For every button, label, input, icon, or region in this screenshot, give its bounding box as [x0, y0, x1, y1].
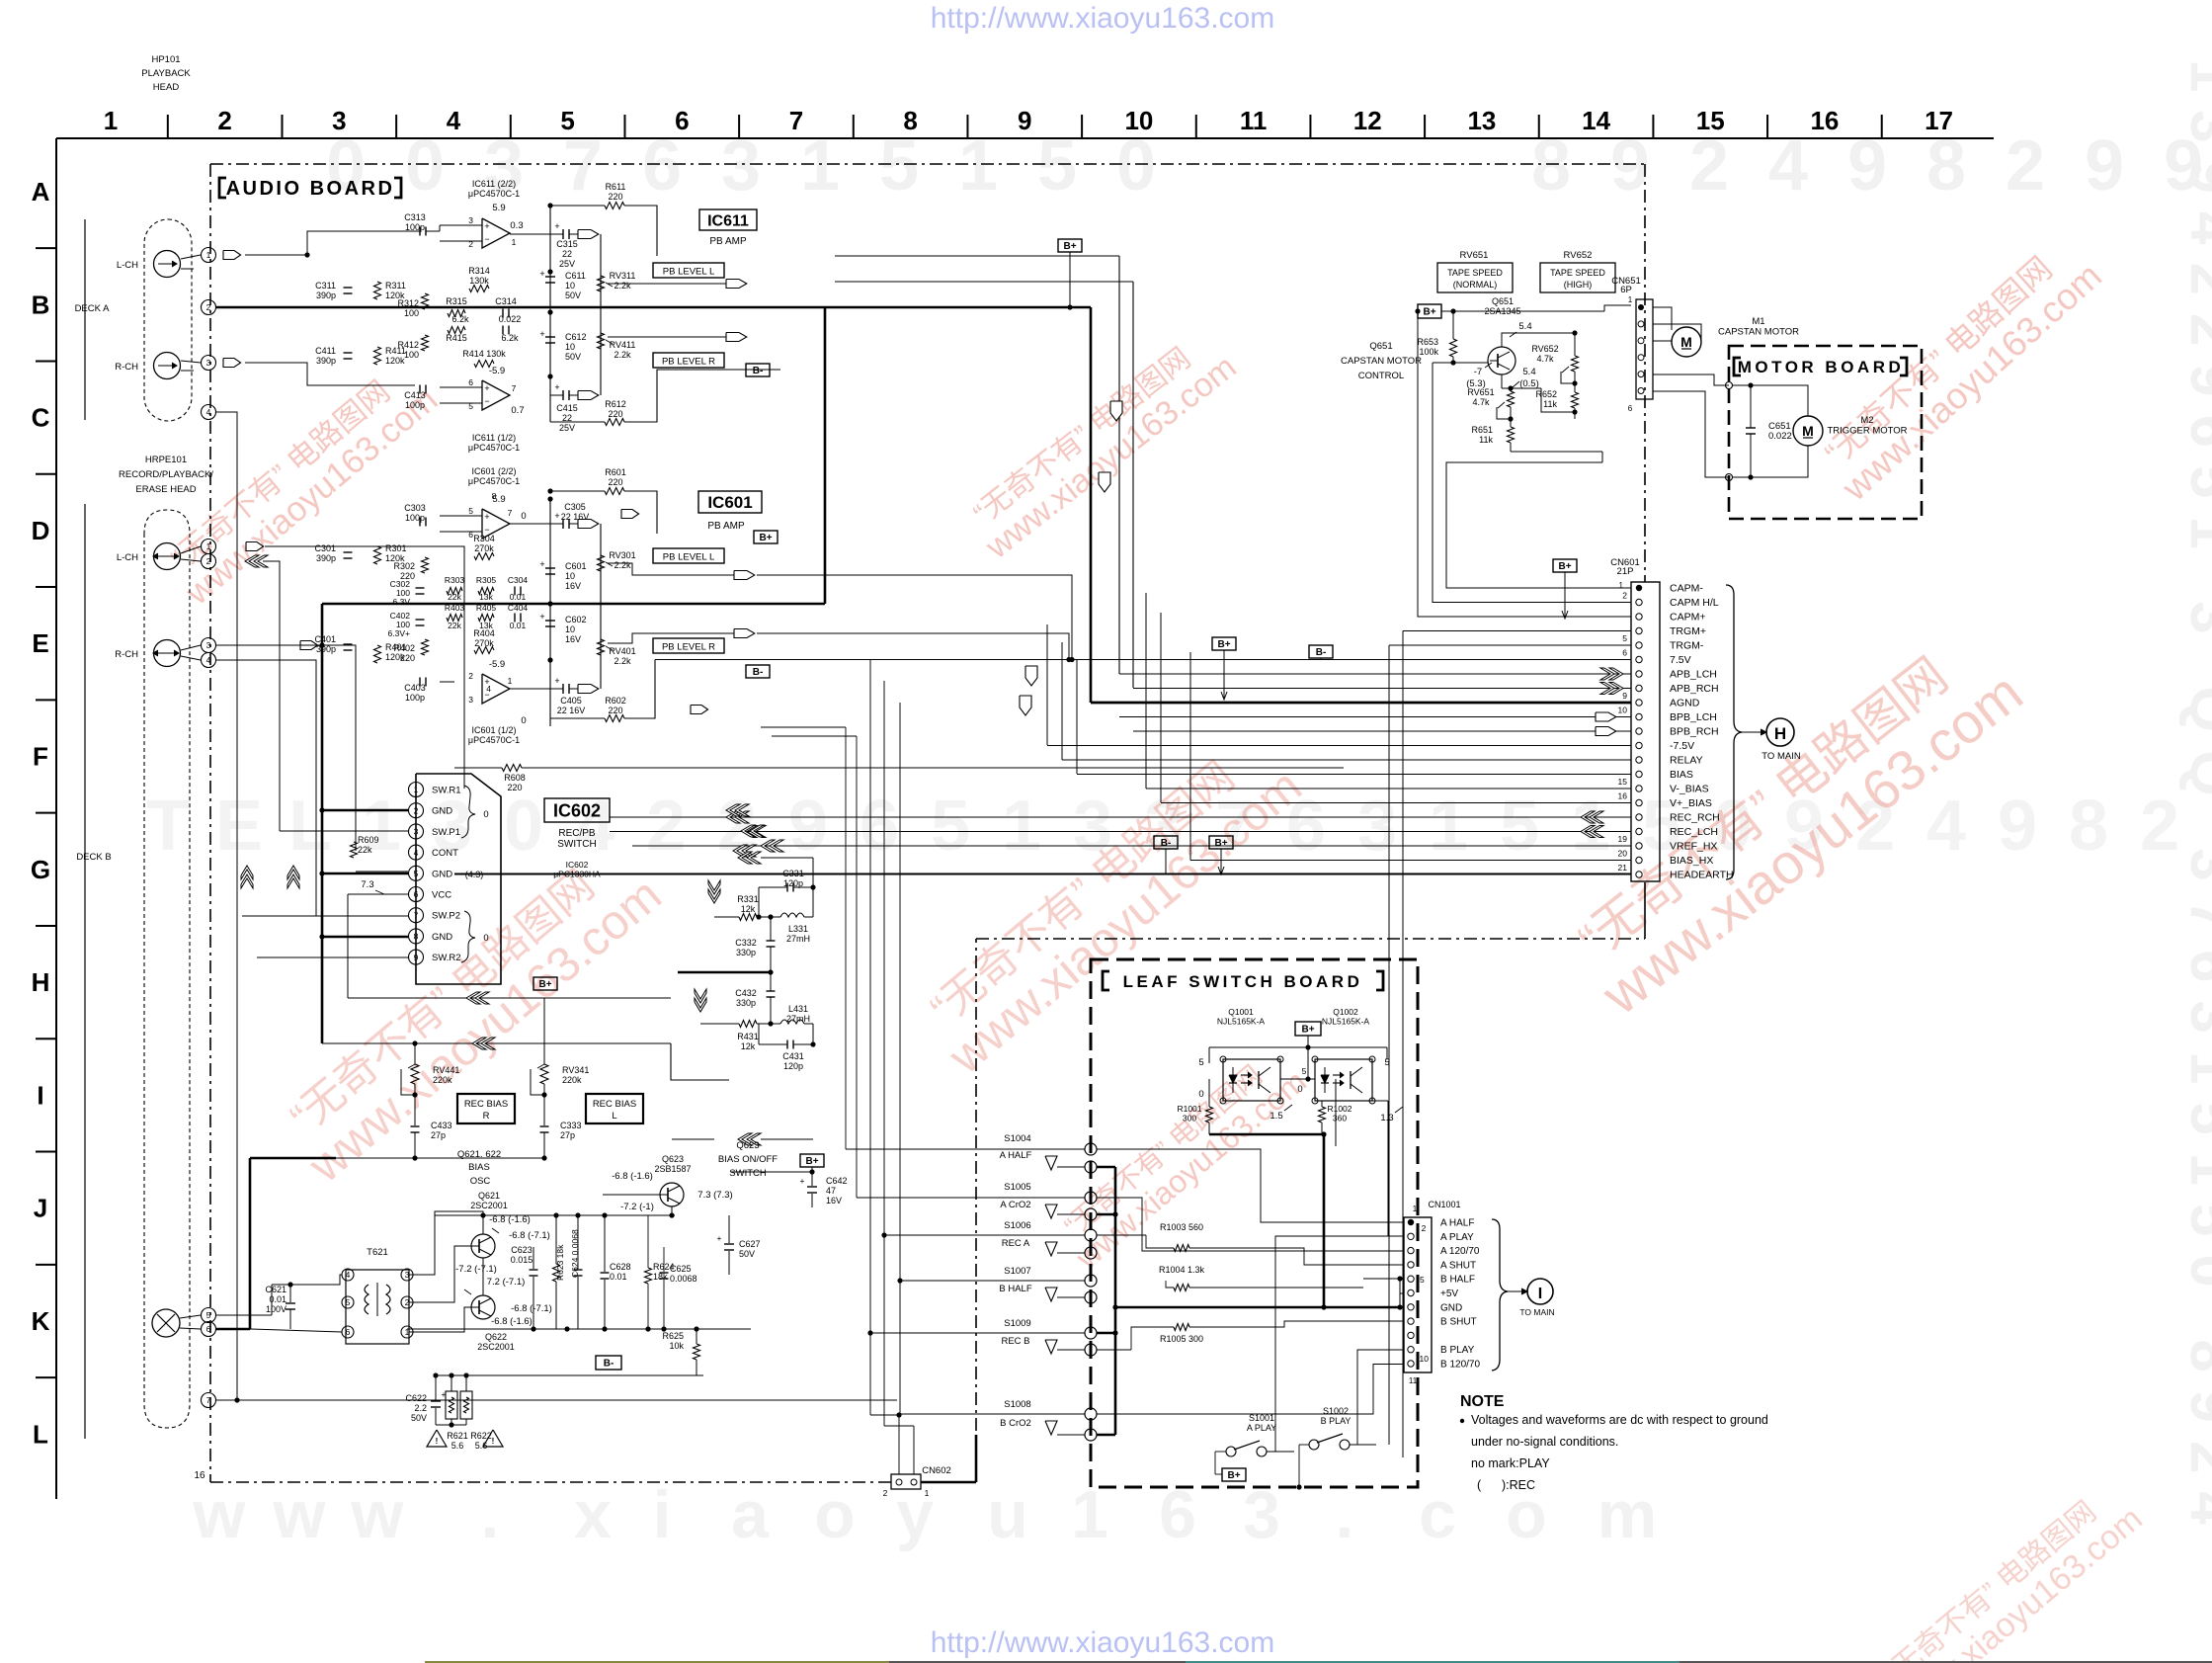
svg-text:S1007: S1007 — [1004, 1266, 1030, 1277]
svg-text:R622: R622 — [470, 1431, 492, 1441]
svg-text:2: 2 — [414, 805, 419, 815]
svg-text:PLAYBACK: PLAYBACK — [141, 68, 191, 79]
wire B+ top box — [1058, 239, 1082, 252]
svg-text:RECORD/PLAYBACK/: RECORD/PLAYBACK/ — [119, 469, 213, 480]
svg-text:11k: 11k — [1543, 399, 1557, 409]
svg-text:T621: T621 — [367, 1247, 388, 1258]
wire opto inputs — [1209, 1078, 1223, 1080]
svg-text:A PLAY: A PLAY — [1440, 1232, 1474, 1243]
transformer T621 outline — [346, 1270, 409, 1344]
svg-text:+: + — [717, 1233, 722, 1243]
svg-text:B+: B+ — [1301, 1025, 1314, 1036]
svg-text:R331: R331 — [737, 894, 759, 904]
wire bias rail top — [435, 1214, 675, 1216]
svg-text:M2: M2 — [1860, 415, 1873, 426]
svg-text:APB_LCH: APB_LCH — [1670, 669, 1717, 681]
wire CN651 to motor board b — [1653, 391, 1729, 477]
deck A pin 3 — [202, 356, 216, 371]
wire S1009 feed — [870, 1332, 1085, 1334]
arrow chev mid a — [738, 852, 752, 864]
svg-text:270k: 270k — [474, 638, 494, 648]
svg-text:7.3 (7.3): 7.3 (7.3) — [697, 1190, 732, 1201]
inductor L431 — [780, 1020, 804, 1024]
svg-text:2.2: 2.2 — [414, 1403, 427, 1413]
svg-text:0.022: 0.022 — [499, 314, 522, 324]
wire head A R — [181, 361, 201, 363]
svg-text:20: 20 — [1618, 849, 1628, 859]
svg-text:i: i — [653, 1477, 672, 1552]
svg-text:Q623: Q623 — [736, 1140, 759, 1151]
wire CN651 to M1 c — [1653, 324, 1701, 341]
svg-text:R302: R302 — [393, 561, 415, 571]
IC602 outline — [416, 774, 501, 984]
svg-text:M: M — [1680, 334, 1692, 350]
svg-text:0: 0 — [521, 715, 526, 726]
motor board title — [1734, 358, 1741, 375]
wire cn602 feed b — [883, 681, 885, 1426]
bus AGND right thick — [1091, 702, 1631, 705]
svg-text:R: R — [483, 1111, 490, 1122]
svg-text:100: 100 — [404, 350, 419, 360]
svg-text:0.0068: 0.0068 — [670, 1274, 697, 1284]
resistor R602 — [605, 715, 624, 722]
connector CN651 — [1636, 299, 1653, 399]
deck A pin 2 — [202, 300, 216, 315]
capacitor C405 — [562, 684, 564, 694]
svg-text:CONT: CONT — [432, 848, 458, 859]
svg-text:-6.8 (-1.6): -6.8 (-1.6) — [612, 1171, 653, 1182]
capacitor C401 R401 — [344, 643, 353, 645]
svg-text:R414 130k: R414 130k — [462, 349, 506, 359]
svg-text:SWITCH: SWITCH — [729, 1168, 767, 1179]
wire pin6 to T621 — [250, 1329, 342, 1332]
IC601 box label — [698, 491, 762, 513]
arrow mid-left a — [621, 510, 639, 519]
svg-text:9: 9 — [1998, 787, 2037, 866]
svg-text:0.01: 0.01 — [610, 1272, 627, 1282]
deck B bracket line — [84, 504, 86, 1439]
svg-text:R415: R415 — [446, 333, 467, 343]
svg-text:2: 2 — [1689, 126, 1729, 206]
wire bundle left vert a — [1046, 624, 1048, 745]
svg-text:130k: 130k — [469, 276, 489, 286]
svg-text:8: 8 — [492, 491, 497, 501]
wire deck B pin1 run — [265, 546, 464, 789]
svg-text:μPC4570C-1: μPC4570C-1 — [468, 189, 520, 199]
wire ic602 pin4 — [356, 871, 408, 873]
svg-text:5: 5 — [1420, 1275, 1425, 1285]
svg-text:0: 0 — [1297, 1084, 1302, 1095]
wire leaf left feeds — [846, 1148, 1085, 1150]
svg-text:100p: 100p — [405, 513, 425, 523]
svg-text:2: 2 — [206, 302, 211, 312]
capacitor C651 — [1746, 427, 1756, 429]
svg-text:1: 1 — [512, 237, 517, 247]
svg-text:HEAD: HEAD — [153, 82, 180, 93]
svg-text:BIAS ON/OFF: BIAS ON/OFF — [718, 1154, 778, 1165]
svg-text:7: 7 — [512, 383, 517, 393]
capacitor C315 — [562, 229, 564, 239]
svg-text:RV652: RV652 — [1531, 344, 1558, 354]
svg-text:4: 4 — [1768, 126, 1808, 206]
svg-text:w: w — [351, 1477, 405, 1552]
svg-text:C625: C625 — [670, 1264, 692, 1274]
svg-text:R402: R402 — [393, 643, 415, 653]
svg-text:4.7k: 4.7k — [1472, 397, 1490, 407]
svg-text:22k: 22k — [358, 845, 372, 855]
left ruler ticks — [36, 247, 56, 249]
svg-text:GND: GND — [432, 869, 452, 879]
warning triangle 1 — [427, 1430, 447, 1447]
svg-text:5.6: 5.6 — [451, 1441, 464, 1451]
arrow C305 out — [578, 520, 599, 529]
arrow row g3 — [733, 845, 747, 857]
B- box g-row — [1154, 836, 1178, 849]
svg-text:C601: C601 — [565, 561, 587, 571]
svg-text:AGND: AGND — [1670, 698, 1700, 709]
resistor R302 — [422, 557, 429, 573]
wire cn602 feed c — [899, 703, 901, 1414]
svg-text:22k: 22k — [448, 621, 461, 630]
svg-text:300: 300 — [1183, 1114, 1196, 1123]
svg-text:(0.5): (0.5) — [1519, 378, 1539, 389]
arrow deck A pin3 — [223, 359, 241, 368]
svg-text:R608: R608 — [504, 773, 526, 783]
svg-text:5: 5 — [206, 1310, 211, 1320]
svg-text:3: 3 — [414, 827, 419, 837]
svg-text:1: 1 — [414, 785, 419, 794]
svg-text:A CrO2: A CrO2 — [1000, 1200, 1030, 1210]
bottom scan artifact line — [425, 1661, 2212, 1663]
wire cn602 thick right — [921, 1481, 976, 1484]
capacitor C611 — [545, 276, 555, 278]
resistor R431 — [739, 1021, 757, 1028]
svg-text:GND: GND — [432, 806, 452, 817]
svg-text:RV311: RV311 — [610, 271, 636, 281]
svg-text:SW.P2: SW.P2 — [432, 911, 460, 922]
svg-text:22k: 22k — [448, 592, 461, 602]
svg-text:120k: 120k — [385, 356, 405, 366]
watermark red stamp mid-bottom — [1049, 1040, 1313, 1277]
wire head B wires — [181, 546, 201, 553]
svg-text:C628: C628 — [610, 1262, 631, 1272]
svg-text:14: 14 — [1582, 106, 1610, 135]
svg-text:+: + — [554, 382, 559, 392]
svg-text:390p: 390p — [316, 553, 336, 563]
wire mid horizontals — [453, 873, 455, 984]
svg-text:2: 2 — [206, 556, 211, 566]
svg-text:4.7k: 4.7k — [1536, 354, 1554, 364]
wire cn601 pin3 feed — [1418, 311, 1631, 617]
svg-text:-6.8 (-1.6): -6.8 (-1.6) — [489, 1214, 531, 1225]
wire bundle right vert a — [1145, 593, 1147, 789]
wire vert x557 — [549, 206, 551, 422]
svg-text:TO MAIN: TO MAIN — [1519, 1307, 1554, 1317]
svg-text:DECK B: DECK B — [76, 852, 111, 863]
svg-text:4: 4 — [206, 655, 211, 665]
audio board border bottom-left — [210, 1481, 891, 1483]
svg-text:S1005: S1005 — [1004, 1182, 1030, 1193]
svg-text:5.4: 5.4 — [1518, 321, 1531, 332]
bus vertical x326 thick — [321, 604, 324, 1043]
wire cn601 pin4 feed — [1403, 630, 1631, 632]
svg-text:B-: B- — [1316, 647, 1327, 658]
B+ box q623 — [800, 1154, 824, 1167]
svg-text:3: 3 — [468, 695, 473, 705]
arrow deck A pin1 — [223, 251, 241, 260]
svg-text:REC B: REC B — [1001, 1336, 1029, 1347]
wire opamp B in — [440, 386, 482, 388]
B+ box s1001 — [1222, 1468, 1246, 1481]
arrow chev y1056 — [472, 1038, 486, 1049]
deck B pin 3 — [202, 638, 216, 653]
head R-CH deck B — [154, 640, 181, 667]
svg-text:1: 1 — [1619, 581, 1624, 590]
svg-text:C623: C623 — [511, 1245, 533, 1255]
svg-text:CAPSTAN MOTOR: CAPSTAN MOTOR — [1341, 356, 1422, 367]
svg-text:C331: C331 — [782, 869, 804, 878]
node H to main — [1742, 731, 1764, 733]
svg-text:27mH: 27mH — [786, 934, 810, 944]
wire long headearth — [454, 873, 1631, 874]
wire motor board bottom — [1751, 434, 1808, 477]
svg-text:6: 6 — [642, 126, 682, 206]
svg-text:under no-signal conditions.: under no-signal conditions. — [1471, 1435, 1618, 1449]
svg-text:220: 220 — [507, 783, 522, 792]
svg-text:PB LEVEL L: PB LEVEL L — [663, 267, 714, 278]
svg-text:B+: B+ — [1423, 307, 1435, 318]
svg-text:2.2k: 2.2k — [614, 350, 631, 360]
svg-text:C: C — [32, 403, 50, 433]
svg-text:1: 1 — [1429, 787, 1468, 866]
IC602 label box — [544, 798, 610, 822]
svg-text:B+: B+ — [1214, 838, 1227, 849]
svg-text:TAPE SPEED: TAPE SPEED — [1447, 268, 1503, 278]
wire opto right leg — [1372, 1058, 1387, 1060]
svg-text:12k: 12k — [741, 904, 756, 914]
svg-text:13: 13 — [1467, 106, 1496, 135]
svg-text:-7.2 (-7.1): -7.2 (-7.1) — [455, 1264, 497, 1275]
svg-text:50V: 50V — [565, 352, 581, 362]
top ruler ticks — [167, 115, 169, 138]
wire ic602 pin3 — [280, 830, 408, 832]
svg-text:9: 9 — [1610, 126, 1650, 206]
svg-text:2: 2 — [468, 671, 473, 681]
svg-text:R303: R303 — [445, 575, 465, 585]
svg-text:25V: 25V — [559, 423, 575, 433]
svg-text:2: 2 — [2006, 126, 2045, 206]
watermark red stamp corner — [1869, 1475, 2149, 1663]
svg-text:7: 7 — [206, 1395, 211, 1405]
svg-text:R653: R653 — [1417, 337, 1438, 347]
svg-text:w: w — [273, 1477, 327, 1552]
capacitor C302 — [416, 587, 425, 589]
svg-text:C413: C413 — [404, 390, 426, 400]
svg-text:2.2k: 2.2k — [614, 560, 631, 570]
svg-text:9: 9 — [2085, 126, 2124, 206]
svg-text:A 120/70: A 120/70 — [1440, 1246, 1480, 1257]
svg-text:V+_BIAS: V+_BIAS — [1670, 797, 1712, 809]
svg-text:R1003 560: R1003 560 — [1160, 1222, 1203, 1232]
svg-text:R404: R404 — [473, 628, 495, 638]
wire deck A pin2 bus — [216, 306, 322, 309]
svg-text:B HALF: B HALF — [1440, 1275, 1475, 1286]
wire vcc — [348, 893, 408, 895]
svg-text:NJL5165K-A: NJL5165K-A — [1322, 1017, 1370, 1027]
wire head A L — [181, 255, 201, 259]
svg-text:IC611: IC611 — [707, 212, 749, 229]
inductor L331 — [780, 913, 804, 917]
svg-text:R601: R601 — [605, 467, 626, 477]
wire bundle left vert c — [1076, 659, 1078, 774]
B+ box cn601 top — [1553, 559, 1577, 572]
svg-text:3: 3 — [1357, 787, 1397, 866]
pot RV411 — [598, 333, 605, 349]
wire vert x608 — [600, 234, 602, 395]
svg-text:R312: R312 — [397, 298, 419, 308]
box REC BIAS R — [457, 1094, 515, 1123]
svg-text:2SC2001: 2SC2001 — [470, 1201, 508, 1210]
svg-text:4: 4 — [206, 407, 211, 417]
wire vert x608b — [600, 524, 602, 689]
deck B head dashed outline — [144, 510, 190, 1428]
capacitor C411 R411 — [344, 352, 353, 354]
svg-text:390p: 390p — [316, 644, 336, 654]
deck B pin 2 — [202, 554, 216, 569]
resistor R303 R305 C304 — [447, 588, 462, 595]
svg-text:-6.8 (-7.1): -6.8 (-7.1) — [509, 1230, 550, 1241]
wire q62x rails — [482, 1215, 484, 1234]
svg-text:TRIGGER MOTOR: TRIGGER MOTOR — [1827, 426, 1907, 437]
svg-text:L: L — [612, 1111, 616, 1122]
capacitor C311 and resistor R311 — [344, 287, 353, 289]
watermark red stamp right-large — [1556, 618, 2034, 1028]
deck A pin 1 — [202, 248, 216, 263]
svg-text:7: 7 — [414, 910, 419, 920]
svg-text:C612: C612 — [565, 332, 587, 342]
svg-text:9: 9 — [1622, 691, 1627, 701]
svg-text:B+: B+ — [538, 979, 551, 990]
svg-text:C332: C332 — [735, 938, 757, 948]
wire leaf bcro2 link — [976, 1434, 1085, 1436]
svg-text:16: 16 — [194, 1470, 205, 1481]
svg-text:L: L — [288, 787, 332, 866]
wire c627 — [692, 1214, 729, 1216]
svg-text:S1004: S1004 — [1004, 1133, 1030, 1144]
svg-text:1: 1 — [800, 126, 840, 206]
capacitor C612 — [545, 336, 555, 338]
svg-text:21P: 21P — [1617, 566, 1634, 577]
svg-text:C432: C432 — [735, 988, 757, 998]
svg-text:B+: B+ — [1227, 1470, 1240, 1481]
svg-text:Q623: Q623 — [662, 1154, 684, 1164]
wire q651 to cn651 p2 — [1502, 324, 1631, 333]
svg-text:SWITCH: SWITCH — [557, 839, 596, 850]
svg-text:A HALF: A HALF — [1000, 1150, 1032, 1161]
svg-text:C602: C602 — [565, 615, 587, 624]
svg-text:-5.9: -5.9 — [489, 366, 505, 376]
wire deck B pin4 run — [216, 660, 316, 916]
transformer T621 pins — [342, 1269, 354, 1281]
switch S1004 — [1085, 1143, 1097, 1155]
pot RV652 — [1572, 356, 1579, 372]
wire q651 bottom rail — [1511, 451, 1602, 453]
bus vertical x1133 — [1118, 256, 1120, 674]
CN601 brace — [1726, 585, 1742, 879]
svg-text:http://www.xiaoyu163.com: http://www.xiaoyu163.com — [931, 1626, 1275, 1659]
svg-text:7: 7 — [563, 126, 603, 206]
wire opto mid legs — [1280, 1058, 1308, 1060]
svg-text:R1005 300: R1005 300 — [1160, 1334, 1203, 1344]
wire Q651 collector — [1502, 333, 1575, 347]
capacitor C413 — [419, 385, 421, 394]
svg-text:50V: 50V — [565, 291, 581, 300]
svg-text:0.01: 0.01 — [510, 621, 527, 630]
svg-text:3: 3 — [405, 1270, 410, 1280]
motor M1 capstan motor — [1672, 327, 1701, 357]
svg-text:C622: C622 — [405, 1393, 427, 1403]
svg-text:+5V: +5V — [1440, 1289, 1458, 1299]
svg-text:APB_RCH: APB_RCH — [1670, 683, 1719, 695]
svg-text:5: 5 — [1622, 633, 1627, 643]
svg-text:50V: 50V — [411, 1413, 427, 1423]
svg-text:CAPM+: CAPM+ — [1670, 612, 1705, 624]
node I to main — [1508, 1290, 1525, 1292]
svg-text:5: 5 — [1500, 787, 1539, 866]
svg-text:NJL5165K-A: NJL5165K-A — [1217, 1017, 1266, 1027]
box PB LEVEL R deckA — [653, 353, 724, 368]
svg-text:H: H — [32, 967, 50, 997]
svg-text:12: 12 — [1353, 106, 1382, 135]
svg-text:C405: C405 — [560, 696, 582, 706]
svg-text:S1002: S1002 — [1323, 1406, 1349, 1416]
wire opamp A in — [440, 224, 482, 226]
svg-text:2: 2 — [2140, 787, 2179, 866]
svg-text:2: 2 — [1422, 1223, 1427, 1233]
connector CN601 box — [1631, 582, 1660, 881]
svg-text:PB LEVEL L: PB LEVEL L — [663, 552, 714, 563]
svg-text:1: 1 — [1413, 1205, 1418, 1213]
svg-text:E: E — [215, 787, 263, 866]
svg-text:100p: 100p — [405, 693, 425, 703]
capacitor C403 — [419, 678, 421, 687]
svg-text:RV401: RV401 — [609, 646, 635, 656]
svg-text:6: 6 — [346, 1327, 351, 1337]
capacitor C313 — [419, 227, 421, 236]
svg-text:6.3V+: 6.3V+ — [388, 628, 410, 638]
svg-text:TRGM+: TRGM+ — [1670, 625, 1706, 637]
svg-text:1: 1 — [206, 250, 211, 260]
svg-text:0: 0 — [504, 787, 543, 866]
capacitor C622 — [431, 1400, 441, 1402]
box tape speed high — [1540, 263, 1615, 292]
svg-text:M1: M1 — [1752, 316, 1764, 327]
svg-text:R1001: R1001 — [1177, 1104, 1201, 1114]
svg-text:2: 2 — [1622, 591, 1627, 601]
svg-text:5: 5 — [1198, 1057, 1203, 1068]
svg-text:C315: C315 — [556, 239, 578, 249]
svg-text:B+: B+ — [805, 1156, 818, 1167]
box PB LEVEL R deckB — [653, 638, 724, 653]
svg-text:J: J — [34, 1194, 47, 1223]
svg-text:(4.3): (4.3) — [465, 870, 484, 879]
svg-text:OSC: OSC — [470, 1176, 491, 1187]
svg-text:Q622: Q622 — [485, 1332, 507, 1342]
svg-text:9: 9 — [788, 787, 828, 866]
svg-text:390p: 390p — [316, 356, 336, 366]
svg-text:TRGM-: TRGM- — [1670, 640, 1704, 652]
svg-text:0: 0 — [483, 933, 488, 944]
